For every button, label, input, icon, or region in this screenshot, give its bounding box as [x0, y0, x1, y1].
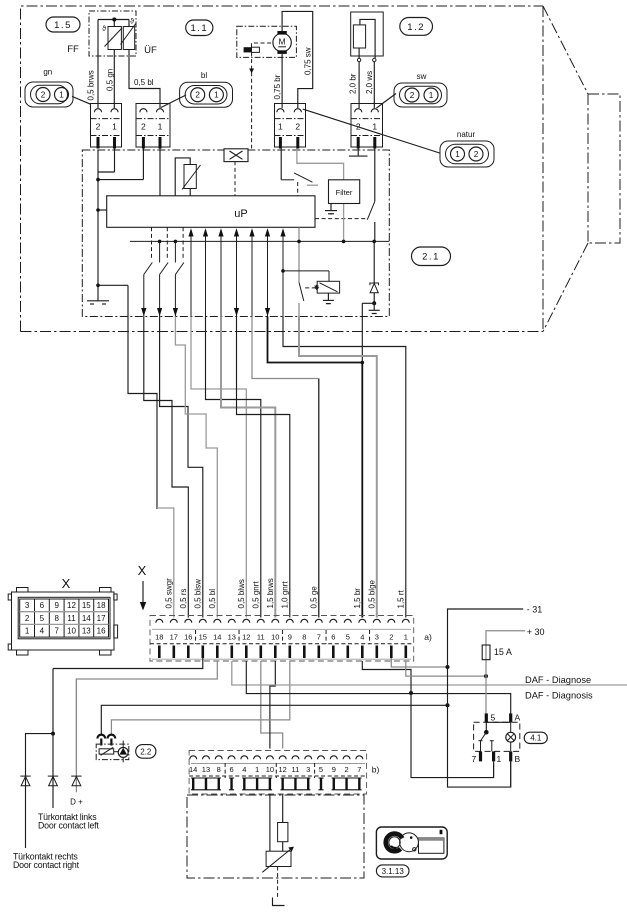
- svg-text:b): b): [372, 765, 380, 775]
- svg-text:1: 1: [25, 627, 30, 636]
- svg-text:4: 4: [360, 633, 364, 642]
- svg-text:1: 1: [112, 122, 117, 132]
- svg-text:2: 2: [389, 633, 393, 642]
- svg-text:0,5 brws: 0,5 brws: [87, 70, 96, 100]
- svg-text:7: 7: [54, 627, 59, 636]
- svg-text:0,5 bl: 0,5 bl: [208, 589, 217, 609]
- svg-text:1,0 gnrt: 1,0 gnrt: [280, 581, 289, 609]
- svg-text:2: 2: [195, 91, 200, 100]
- svg-text:1: 1: [59, 90, 64, 99]
- svg-text:1: 1: [429, 91, 434, 100]
- svg-text:15: 15: [199, 633, 207, 642]
- svg-text:2: 2: [474, 150, 479, 159]
- svg-text:1: 1: [255, 765, 259, 774]
- svg-text:13: 13: [82, 627, 91, 636]
- svg-text:0,5 gn: 0,5 gn: [105, 69, 114, 91]
- svg-text:Door contact left: Door contact left: [38, 821, 99, 831]
- svg-text:11: 11: [292, 765, 300, 774]
- svg-text:2: 2: [344, 765, 348, 774]
- svg-text:3.1.13: 3.1.13: [382, 867, 405, 876]
- svg-text:9: 9: [288, 633, 292, 642]
- svg-text:3: 3: [375, 633, 379, 642]
- svg-text:8: 8: [302, 633, 306, 642]
- svg-text:7: 7: [472, 754, 477, 764]
- svg-text:0,75 br: 0,75 br: [273, 74, 282, 99]
- svg-text:A: A: [515, 713, 521, 723]
- svg-text:0,5 bl: 0,5 bl: [134, 78, 154, 87]
- svg-text:Door contact right: Door contact right: [13, 860, 80, 870]
- svg-text:4: 4: [40, 627, 45, 636]
- svg-text:5: 5: [40, 614, 45, 623]
- svg-text:2: 2: [96, 122, 101, 132]
- svg-text:1: 1: [158, 122, 163, 132]
- svg-text:7: 7: [317, 633, 321, 642]
- svg-text:9: 9: [54, 601, 59, 610]
- svg-text:6: 6: [331, 633, 335, 642]
- svg-text:uP: uP: [234, 208, 247, 220]
- svg-text:2.1: 2.1: [422, 252, 440, 263]
- svg-text:natur: natur: [457, 130, 476, 139]
- svg-text:5: 5: [491, 713, 496, 723]
- svg-text:3: 3: [306, 765, 310, 774]
- svg-text:5: 5: [346, 633, 350, 642]
- svg-text:1: 1: [278, 122, 283, 132]
- svg-text:13: 13: [228, 633, 236, 642]
- svg-text:1,5 br: 1,5 br: [353, 588, 362, 609]
- svg-text:ϑ: ϑ: [130, 19, 134, 26]
- svg-text:7: 7: [357, 765, 361, 774]
- svg-text:Filter: Filter: [336, 188, 353, 197]
- svg-text:1: 1: [455, 150, 460, 159]
- svg-text:11: 11: [67, 614, 76, 623]
- svg-text:X: X: [62, 576, 71, 591]
- svg-text:14: 14: [213, 633, 221, 642]
- svg-text:12: 12: [278, 765, 286, 774]
- svg-text:4: 4: [242, 765, 246, 774]
- svg-text:- 31: - 31: [527, 605, 543, 615]
- svg-text:11: 11: [257, 633, 265, 642]
- svg-text:1: 1: [372, 122, 377, 132]
- svg-text:6: 6: [229, 765, 233, 774]
- svg-text:B: B: [515, 754, 521, 764]
- svg-text:0,5 blws: 0,5 blws: [237, 579, 246, 608]
- svg-text:0,5 rs: 0,5 rs: [179, 588, 188, 608]
- svg-text:8: 8: [217, 765, 221, 774]
- svg-text:10: 10: [266, 765, 274, 774]
- svg-text:0,5 blge: 0,5 blge: [367, 579, 376, 608]
- svg-text:18: 18: [155, 633, 163, 642]
- svg-text:0,5 swgr: 0,5 swgr: [164, 578, 173, 609]
- svg-text:0,75 sw: 0,75 sw: [304, 47, 313, 75]
- svg-text:3: 3: [25, 601, 30, 610]
- svg-text:14: 14: [82, 614, 91, 623]
- svg-text:2: 2: [410, 91, 415, 100]
- svg-text:1,5 brws: 1,5 brws: [266, 578, 275, 608]
- svg-text:17: 17: [170, 633, 178, 642]
- svg-text:ÜF: ÜF: [144, 45, 157, 56]
- svg-text:2: 2: [141, 122, 146, 132]
- svg-text:1,5 rt: 1,5 rt: [396, 589, 405, 608]
- svg-text:8: 8: [54, 614, 59, 623]
- svg-text:ϑ: ϑ: [102, 26, 106, 33]
- svg-text:16: 16: [184, 633, 192, 642]
- svg-text:9: 9: [332, 765, 336, 774]
- svg-text:14: 14: [189, 765, 197, 774]
- svg-text:DAF - Diagnose: DAF - Diagnose: [525, 675, 591, 685]
- svg-text:2: 2: [295, 122, 300, 132]
- svg-text:FF: FF: [67, 44, 79, 55]
- svg-text:12: 12: [67, 601, 76, 610]
- svg-text:0,5 ge: 0,5 ge: [309, 586, 318, 609]
- svg-text:1: 1: [497, 754, 502, 764]
- svg-text:1: 1: [214, 91, 219, 100]
- svg-text:16: 16: [97, 627, 106, 636]
- svg-text:13: 13: [202, 765, 210, 774]
- svg-text:2.2: 2.2: [140, 747, 152, 756]
- svg-text:DAF - Diagnosis: DAF - Diagnosis: [525, 691, 593, 701]
- svg-text:18: 18: [97, 601, 106, 610]
- svg-text:12: 12: [242, 633, 250, 642]
- svg-text:D +: D +: [70, 798, 83, 807]
- svg-text:1: 1: [404, 633, 408, 642]
- svg-text:2,0 ws: 2,0 ws: [365, 71, 374, 94]
- svg-text:10: 10: [67, 627, 76, 636]
- svg-text:1.1: 1.1: [190, 23, 208, 34]
- svg-text:2: 2: [41, 90, 46, 99]
- svg-text:1.2: 1.2: [407, 22, 425, 33]
- svg-text:gn: gn: [43, 68, 52, 77]
- svg-text:X: X: [138, 563, 147, 578]
- svg-text:2: 2: [25, 614, 30, 623]
- svg-text:a): a): [424, 632, 432, 642]
- svg-text:17: 17: [97, 614, 106, 623]
- svg-text:15 A: 15 A: [494, 647, 512, 657]
- svg-text:+ 30: + 30: [527, 627, 545, 637]
- svg-text:0,5 blsw: 0,5 blsw: [193, 579, 202, 609]
- svg-text:15: 15: [82, 601, 91, 610]
- svg-text:4.1: 4.1: [530, 734, 542, 743]
- svg-text:1.5: 1.5: [54, 20, 72, 31]
- svg-text:5: 5: [319, 765, 323, 774]
- svg-text:2,0 br: 2,0 br: [349, 73, 358, 94]
- svg-text:sw: sw: [417, 72, 427, 81]
- svg-text:10: 10: [271, 633, 279, 642]
- svg-text:bl: bl: [201, 71, 207, 80]
- svg-text:M: M: [279, 37, 286, 47]
- svg-text:0,5 gnrt: 0,5 gnrt: [251, 581, 260, 609]
- svg-text:6: 6: [40, 601, 45, 610]
